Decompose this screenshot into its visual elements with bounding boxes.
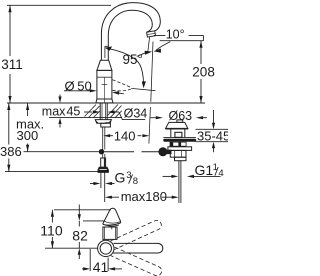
countertop deck line (7, 102, 205, 104)
drain locknut (168, 147, 192, 151)
lever handle dashed (side view) (113, 80, 156, 91)
dimension max 45 (42, 95, 81, 128)
rod ball joint (158, 147, 171, 156)
svg-text:10°: 10° (166, 28, 185, 42)
rod extension line left (24, 151, 100, 153)
dimension diameter 34 (84, 107, 147, 121)
dimension diameter 50 (64, 78, 124, 94)
mounting shank (100, 103, 107, 120)
svg-text:G1: G1 (195, 162, 214, 178)
dimension 35-45 (196, 110, 231, 152)
spout axis extension line (45, 247, 98, 249)
dimension 41 (82, 249, 122, 275)
svg-text:140: 140 (114, 128, 136, 143)
svg-text:8: 8 (133, 176, 138, 187)
countertop bottom line (49, 117, 122, 119)
svg-text:300: 300 (17, 128, 39, 143)
spout gooseneck (101, 3, 160, 61)
extension line lever back (83, 220, 104, 222)
counter hatching right (108, 105, 122, 118)
dimension 82 (72, 205, 88, 260)
compression fitting tube (101, 158, 106, 167)
lever up position lines (105, 46, 108, 58)
drain body cylinder (170, 150, 186, 157)
stream axis below deck (149, 107, 151, 144)
mounting nut washer (95, 120, 111, 124)
svg-text:Ø34: Ø34 (124, 107, 148, 121)
svg-text:311: 311 (1, 57, 23, 72)
svg-text:Ø63: Ø63 (169, 109, 193, 123)
label G1 1/4 (163, 162, 224, 179)
svg-text:G: G (115, 169, 126, 185)
svg-text:max 45: max 45 (42, 105, 81, 119)
spout plan dashed upper (111, 219, 163, 250)
svg-text:41: 41 (93, 259, 109, 275)
swivel ring (98, 240, 114, 256)
dimension max180 (105, 189, 179, 204)
faucet body taper (97, 60, 112, 70)
counter hatching left (85, 105, 100, 118)
dimension 140 (103, 128, 149, 143)
angle 95 deg annotation (105, 46, 146, 88)
spout aerator outlet (147, 31, 156, 37)
svg-text:110: 110 (40, 222, 63, 238)
drain plug knob (177, 120, 183, 123)
body centre tick (102, 84, 108, 86)
drain body step (175, 157, 187, 161)
supply pipe bottom (101, 172, 105, 202)
drain dome (166, 122, 188, 128)
dimension 110 (40, 210, 63, 248)
drain neck (171, 129, 185, 138)
svg-text:386: 386 (0, 144, 22, 159)
drain tailpipe (179, 161, 181, 203)
label G 3/8 (90, 169, 138, 187)
hose connection block (101, 123, 111, 127)
supply pipe lower stub (103, 154, 105, 158)
svg-text:208: 208 (192, 64, 215, 79)
pop-up rod (104, 151, 159, 153)
svg-text:35-45: 35-45 (197, 129, 228, 144)
dimension 208 (192, 41, 215, 103)
stream axis line (151, 42, 153, 102)
svg-text:max180: max180 (121, 189, 167, 204)
spout plan solid (113, 243, 163, 253)
dimension 386 (0, 103, 22, 172)
junction node (99, 149, 104, 154)
wire top extension line (7, 4, 111, 6)
spout plan dashed lower (111, 247, 163, 276)
svg-text:82: 82 (72, 227, 88, 243)
supply pipe upper (103, 127, 105, 150)
svg-text:1: 1 (213, 162, 218, 173)
dimension max 300 (16, 103, 44, 152)
extension line to connector (5, 171, 98, 173)
drain flange lip (163, 137, 196, 139)
plug window (175, 132, 182, 137)
dimension 311 (1, 5, 23, 103)
angle 10 deg annotation (137, 28, 204, 57)
faucet body (96, 70, 113, 103)
water stream line (148, 37, 150, 53)
svg-text:4: 4 (218, 168, 223, 179)
extension line lever top (54, 209, 111, 211)
lever handle plan (103, 208, 121, 229)
drain upper body with slots (170, 142, 187, 147)
dimension diameter 63 (151, 109, 208, 123)
connector nut G3/8 (98, 167, 108, 172)
cartridge neck (103, 227, 117, 239)
